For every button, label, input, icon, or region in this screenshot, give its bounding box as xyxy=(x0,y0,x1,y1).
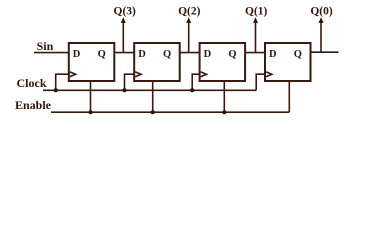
arrow Q(0) xyxy=(319,17,324,52)
wire U4 Q output xyxy=(311,51,339,53)
flip-flop U3 clock chevron xyxy=(201,72,207,77)
node clock tap U2 xyxy=(123,88,127,92)
node clock tap U1 xyxy=(54,88,58,92)
wire enable bus xyxy=(51,111,289,113)
wire U1 Q to U2 D xyxy=(114,52,134,54)
flip-flop U4 box xyxy=(265,43,311,81)
svg-text:D: D xyxy=(73,49,81,60)
node enable tap U3 xyxy=(222,110,226,114)
svg-text:Enable: Enable xyxy=(15,98,52,112)
svg-text:Q(3): Q(3) xyxy=(114,5,137,17)
svg-text:D: D xyxy=(204,49,212,60)
wire U3 Q to U4 D xyxy=(245,52,265,54)
wire Sin to U1 D xyxy=(34,52,69,54)
wire clock stub U1 xyxy=(56,74,69,90)
wire enable drop U4 xyxy=(288,81,290,112)
flip-flop U3 box xyxy=(200,43,246,81)
node clock tap U3 xyxy=(190,88,194,92)
svg-text:D: D xyxy=(269,49,277,60)
flip-flop U1 clock chevron xyxy=(70,72,76,77)
svg-text:Q: Q xyxy=(98,49,106,60)
flip-flop U2 clock chevron xyxy=(135,72,141,77)
wire enable drop U1 xyxy=(90,81,92,112)
svg-text:Q: Q xyxy=(294,49,302,60)
wire clock bus xyxy=(43,89,256,91)
svg-text:Q(1): Q(1) xyxy=(245,5,268,17)
arrow Q(2) xyxy=(186,17,191,52)
flip-flop U2 box xyxy=(134,43,180,81)
svg-text:Sin: Sin xyxy=(37,39,54,53)
flip-flop U1 box xyxy=(69,43,115,81)
arrow Q(3) xyxy=(121,17,126,52)
flip-flop U4 clock chevron xyxy=(266,72,272,77)
wire enable drop U3 xyxy=(223,81,225,112)
svg-text:Q(0): Q(0) xyxy=(310,5,333,17)
wire clock stub U4 xyxy=(256,74,265,90)
svg-text:D: D xyxy=(138,49,146,60)
svg-text:Clock: Clock xyxy=(17,76,47,90)
wire U2 Q to U3 D xyxy=(180,52,200,54)
node enable tap U1 xyxy=(89,110,93,114)
wire clock stub U2 xyxy=(125,74,135,90)
svg-text:Q(2): Q(2) xyxy=(178,5,201,17)
wire enable drop U2 xyxy=(152,81,154,112)
arrow Q(1) xyxy=(253,17,258,52)
node enable tap U2 xyxy=(151,110,155,114)
wire clock stub U3 xyxy=(192,74,199,90)
svg-text:Q: Q xyxy=(228,49,236,60)
svg-text:Q: Q xyxy=(163,49,171,60)
